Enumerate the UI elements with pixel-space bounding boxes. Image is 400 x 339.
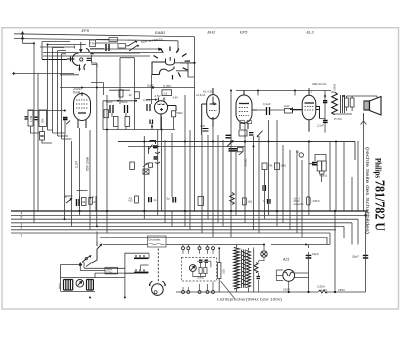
fuse diamond bbox=[78, 262, 82, 267]
resistor box 40 bbox=[135, 92, 140, 99]
svg-text:4nF: 4nF bbox=[200, 124, 205, 128]
capacitor c-top1 bbox=[106, 44, 109, 51]
resistor box mid-bot 1 bbox=[262, 163, 267, 170]
switch diag osc bbox=[149, 145, 153, 155]
resistor box out1 bbox=[345, 98, 349, 107]
capacitor small br bbox=[257, 277, 261, 279]
svg-text:1,6A: 1,6A bbox=[321, 288, 327, 292]
svg-text:95V 2mA: 95V 2mA bbox=[86, 156, 90, 171]
arrow a2 bbox=[21, 36, 24, 39]
svg-text:TRU: TRU bbox=[90, 42, 96, 46]
capacitor 4nF bbox=[203, 129, 209, 132]
svg-text:Lichtsprecher(99Hz bzw 100v): Lichtsprecher(99Hz bzw 100v) bbox=[217, 298, 282, 302]
tube EAB1 body bbox=[152, 57, 175, 75]
phase circle with arrow bbox=[76, 280, 84, 288]
resistor box 470k bbox=[239, 130, 247, 136]
wire v0 grid line bbox=[40, 46, 75, 49]
wire speaker feeds bbox=[331, 92, 377, 125]
mech dashed link bbox=[157, 249, 159, 284]
svg-text:EH1: EH1 bbox=[208, 30, 216, 35]
svg-text:0,1μF: 0,1μF bbox=[143, 98, 151, 102]
capacitor dark bar bbox=[229, 149, 238, 151]
capacitor row1 dark bbox=[77, 199, 80, 206]
capacitor osc dark bbox=[153, 146, 157, 148]
wire v0 bottom segs bbox=[60, 65, 97, 75]
mains transformer winding 2 bbox=[87, 280, 94, 291]
switch contact bar 2 bbox=[134, 271, 149, 273]
resistor box mid-bot 2 bbox=[275, 163, 280, 170]
capacitor right of V5 top bbox=[323, 101, 327, 103]
svg-text:4,6V: 4,6V bbox=[173, 96, 179, 100]
resistor row1 bbox=[82, 198, 87, 206]
wire x64 down bbox=[65, 135, 72, 211]
switch a bbox=[92, 242, 102, 263]
wire y90 bbox=[109, 89, 130, 91]
drive circle with arrow bbox=[189, 265, 196, 272]
wire bundle tops bbox=[42, 42, 86, 54]
wire antenna corner bbox=[23, 32, 35, 212]
svg-text:EAT: EAT bbox=[148, 84, 154, 88]
capacitor left of R1 bbox=[25, 117, 28, 119]
junction dot t2 bbox=[151, 125, 153, 127]
capacitor row right bbox=[268, 199, 271, 204]
capacitor row3 bbox=[149, 197, 152, 202]
bus line 6 bbox=[11, 229, 336, 231]
svg-text:EL3: EL3 bbox=[307, 30, 315, 35]
wire top bus B bbox=[14, 39, 178, 53]
pot arrow bbox=[227, 141, 233, 147]
capacitor osc dark 2 bbox=[154, 157, 159, 159]
svg-text:220V: 220V bbox=[106, 270, 112, 274]
capacitor between bbox=[35, 117, 38, 119]
wire transformer ends bbox=[237, 245, 254, 293]
resistor r-c2 bbox=[125, 117, 130, 127]
wire eab right bbox=[175, 63, 195, 77]
tube V5 EL3 bbox=[290, 88, 320, 132]
wire left top bbox=[28, 110, 66, 112]
resistor box out2 bbox=[350, 98, 354, 107]
svg-text:EF9: EF9 bbox=[82, 28, 90, 33]
svg-text:EAB1: EAB1 bbox=[155, 30, 165, 35]
svg-text:EF5: EF5 bbox=[240, 30, 248, 35]
ballast resistor tall bbox=[218, 263, 221, 279]
capacitor dark cross bbox=[312, 163, 317, 165]
resistor box right1 bbox=[317, 161, 321, 171]
diode arrow left row bbox=[66, 199, 72, 204]
svg-text:(rechte Seite des Schaltbildes: (rechte Seite des Schaltbildes) bbox=[365, 147, 370, 235]
capacitor dark h1 bbox=[249, 133, 254, 135]
Drucktasten box bbox=[148, 236, 167, 247]
svg-text:500kΩ: 500kΩ bbox=[244, 158, 248, 167]
svg-text:AB: AB bbox=[82, 201, 86, 204]
bus line 1 bbox=[11, 210, 368, 212]
arrow v0 cathode bbox=[78, 69, 81, 72]
resistor box osc bbox=[149, 163, 153, 167]
wire drive internal bbox=[193, 261, 211, 276]
svg-text:AB2,42mA: AB2,42mA bbox=[312, 82, 326, 86]
svg-text:50kΩ: 50kΩ bbox=[177, 111, 183, 115]
resistor box r131b bbox=[135, 196, 139, 203]
tiny boxes below T4 bbox=[240, 121, 245, 124]
resistor r-v2 bbox=[172, 111, 176, 117]
resistor drive 1 bbox=[199, 268, 202, 274]
wire eab left down bbox=[151, 75, 153, 96]
capacitor drive 1 bbox=[199, 260, 202, 262]
capacitor 18uF bbox=[363, 255, 368, 258]
svg-text:≈185,6: ≈185,6 bbox=[312, 199, 321, 203]
svg-text:AZ1: AZ1 bbox=[282, 258, 290, 262]
svg-text:5,35V: 5,35V bbox=[163, 85, 172, 89]
resistor box Vkur bbox=[109, 38, 118, 42]
svg-text:2,2V: 2,2V bbox=[75, 160, 79, 168]
resistor R-left2 bbox=[39, 110, 47, 127]
wire az1 bbox=[276, 270, 308, 292]
tube V3 EF5 bbox=[202, 88, 220, 135]
resistor drive 2 bbox=[204, 268, 207, 274]
wire v5 caps bbox=[320, 91, 326, 133]
oscillator coil wire step bbox=[150, 141, 156, 145]
svg-text:1k: 1k bbox=[129, 93, 133, 97]
callout diagonal bbox=[221, 281, 235, 299]
wire right cluster bbox=[309, 142, 326, 212]
tube V4 EBL bbox=[236, 90, 257, 129]
wire contact stubs bbox=[136, 253, 149, 272]
wire bottom-left nets bbox=[61, 262, 149, 292]
wire grid dark bbox=[42, 59, 67, 61]
svg-text:781/782 U: 781/782 U bbox=[372, 180, 387, 231]
arrow b bbox=[13, 72, 16, 75]
bus line 5 bbox=[11, 225, 344, 227]
wire terminal stubs bbox=[183, 245, 213, 291]
wire top right feed bbox=[236, 91, 331, 96]
capacitor pair mid bbox=[263, 185, 266, 191]
svg-text:1kΩ: 1kΩ bbox=[248, 200, 253, 204]
svg-text:0,1μF: 0,1μF bbox=[263, 102, 271, 106]
wire loop box bbox=[125, 253, 149, 297]
wire ballast bbox=[218, 248, 220, 292]
resistor box right2 bbox=[322, 161, 326, 171]
wire switch feed bbox=[86, 232, 148, 267]
vertical wires to bus bbox=[80, 91, 364, 212]
coil hook 1 bbox=[155, 152, 160, 153]
trimmer arrow bbox=[143, 163, 148, 167]
switch b bbox=[82, 256, 91, 263]
svg-text:1,6: 1,6 bbox=[164, 91, 168, 95]
capacitor c50a bbox=[110, 105, 113, 113]
svg-text:+0,5mA: +0,5mA bbox=[196, 93, 206, 97]
wire y87 long bbox=[60, 87, 195, 89]
circle comp right bbox=[299, 153, 303, 157]
coil hook 2 bbox=[155, 162, 160, 163]
wire lamp bbox=[259, 245, 265, 293]
capacitor under T2 bbox=[150, 120, 153, 125]
wire bottom right nets bbox=[166, 212, 366, 293]
svg-text:2,2nF: 2,2nF bbox=[317, 124, 324, 128]
transformer secondary zigzag bbox=[246, 251, 250, 288]
wire v0 top pin bbox=[80, 42, 82, 52]
svg-text:1,5M: 1,5M bbox=[29, 115, 33, 122]
svg-text:Philips: Philips bbox=[374, 158, 384, 179]
wire top connects bbox=[90, 39, 140, 53]
svg-text:anwache: anwache bbox=[294, 203, 305, 206]
svg-text:Drucktast.: Drucktast. bbox=[149, 238, 162, 242]
wire long mid line bbox=[118, 142, 355, 161]
svg-text:Netz: Netz bbox=[58, 283, 62, 289]
mains transformer winding 1 bbox=[64, 280, 73, 291]
resistor box r131 bbox=[130, 162, 135, 170]
capacitor c50b bbox=[125, 105, 128, 113]
resistor 1k horizontal bbox=[285, 109, 293, 114]
svg-text:μF: μF bbox=[93, 201, 96, 204]
wire x103 down bbox=[103, 83, 105, 96]
capacitor 2,2nF bbox=[323, 121, 328, 123]
wire v4-v5 bbox=[252, 109, 303, 111]
wire eh1 stub bbox=[180, 63, 195, 77]
svg-text:7: 7 bbox=[21, 234, 23, 238]
capacitor drive 2 bbox=[205, 260, 208, 262]
dial lamp bbox=[261, 251, 267, 257]
svg-text:2μ: 2μ bbox=[154, 198, 157, 202]
svg-text:60kΩ: 60kΩ bbox=[333, 84, 337, 91]
svg-text:4,5V: 4,5V bbox=[155, 94, 161, 98]
tube V0 mixer electrode cluster bbox=[67, 49, 94, 71]
motor arrowheads bbox=[149, 284, 151, 286]
svg-text:1kΩ: 1kΩ bbox=[284, 104, 290, 108]
wire bundle bottom turns bbox=[48, 130, 72, 139]
svg-text:MΩ: MΩ bbox=[129, 200, 133, 203]
bus line 4 bbox=[11, 222, 352, 224]
switch diag 1 bbox=[258, 131, 263, 137]
bus line 7 bbox=[11, 232, 330, 234]
transformer core bars bbox=[242, 250, 246, 288]
wire bundle verticals bbox=[42, 42, 62, 140]
switch contacts top bbox=[128, 41, 138, 51]
motor bbox=[149, 281, 165, 295]
lower left cluster box bbox=[40, 132, 45, 141]
wire top bus A bbox=[14, 34, 195, 211]
resistor row2 bbox=[89, 197, 93, 204]
bus line 2 bbox=[11, 214, 366, 216]
tube V1 EF9 bbox=[74, 92, 91, 128]
bus line 3 bbox=[11, 218, 358, 220]
wire triple to EAB1 bbox=[43, 49, 162, 56]
terminal circles bottom row bbox=[182, 291, 215, 294]
wire bus right drops bbox=[327, 219, 358, 244]
svg-text:16μF: 16μF bbox=[312, 252, 319, 256]
resistor box tc bbox=[119, 90, 123, 97]
zigzag resistor mid low bbox=[230, 193, 235, 205]
wire long B line bbox=[12, 73, 74, 75]
capacitor c-v2 bbox=[147, 104, 150, 111]
svg-text:185V: 185V bbox=[338, 288, 345, 292]
terminal circles top row bbox=[182, 247, 215, 250]
switch contact bar 1 bbox=[134, 257, 149, 259]
arrow eab bbox=[158, 48, 163, 52]
output transformer secondary bbox=[341, 95, 345, 113]
box with x bbox=[143, 169, 149, 174]
svg-text:220V: 220V bbox=[283, 288, 290, 292]
tuning indicator EAB1 starburst bbox=[154, 47, 191, 80]
wire x98 down bbox=[96, 63, 98, 211]
switch diag 2 bbox=[239, 152, 242, 155]
junction dot eat bbox=[152, 86, 154, 88]
resistor box low2 bbox=[243, 198, 247, 205]
svg-text:18μF: 18μF bbox=[352, 255, 359, 259]
component row above bus bbox=[64, 191, 320, 207]
resistor box 1k5 bbox=[104, 110, 109, 118]
output transformer primary zigzag bbox=[332, 92, 338, 115]
voltage selector box bbox=[105, 267, 118, 274]
ballast box bbox=[307, 197, 311, 205]
junction dot left bbox=[64, 110, 66, 112]
resistor box top2 bbox=[118, 44, 126, 49]
wire mid line2 bbox=[128, 146, 245, 148]
pin dot v3 bbox=[212, 117, 214, 119]
heater zigzag small bbox=[254, 263, 258, 273]
bus line 8 partial bbox=[100, 236, 327, 238]
svg-text:5μ: 5μ bbox=[167, 197, 171, 201]
motor drive dashed box bbox=[182, 257, 217, 281]
capacitor 60nF dark bbox=[226, 135, 232, 138]
wire x117 bbox=[120, 58, 135, 104]
tube V2 EH1 triode circle bbox=[154, 98, 176, 130]
resistor box low1 bbox=[198, 197, 204, 206]
loudspeaker bbox=[364, 97, 381, 116]
resistor r-c1 bbox=[114, 117, 119, 127]
wire y82 bbox=[91, 55, 104, 83]
transformer TRU box bbox=[90, 40, 96, 47]
wire left boxes bottom bbox=[31, 120, 66, 143]
svg-text:P=7Ω: P=7Ω bbox=[334, 117, 342, 121]
wire vertical x38 bbox=[37, 74, 39, 212]
mains transformer primary zigzag bbox=[234, 248, 240, 290]
resistor box TL6 bbox=[162, 90, 172, 96]
svg-text:5: 5 bbox=[21, 215, 23, 219]
resistor box avc bbox=[238, 147, 244, 151]
capacitor 0,1uF mid bbox=[267, 107, 270, 115]
wires mid cluster bbox=[103, 95, 175, 130]
capacitor 16uF bbox=[306, 255, 312, 258]
wire x136 bbox=[134, 58, 136, 92]
contact dots bbox=[135, 255, 145, 271]
resistor R-left1 bbox=[28, 110, 33, 126]
arrow a1 bbox=[21, 31, 24, 34]
svg-text:50k: 50k bbox=[41, 118, 45, 123]
fuse zigzag bottom bbox=[318, 290, 327, 293]
wire T2 left in bbox=[146, 99, 155, 101]
svg-text:310: 310 bbox=[222, 269, 226, 274]
wire row left bbox=[65, 191, 94, 200]
wire bus connection stubs bbox=[34, 211, 309, 237]
capacitor cathode dark bbox=[63, 118, 68, 120]
